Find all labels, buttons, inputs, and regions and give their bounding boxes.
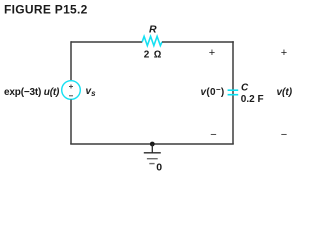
svg-text:C: C — [241, 83, 249, 94]
wire bottom segment — [70, 143, 234, 145]
wire top-left segment — [71, 41, 142, 43]
resistor R — [142, 36, 162, 45]
wire right upper segment — [232, 41, 234, 92]
ground — [144, 144, 161, 164]
junction dot node 0 — [150, 142, 155, 147]
plus terminal mark — [69, 85, 73, 89]
svg-text:FIGURE P15.2: FIGURE P15.2 — [4, 3, 88, 17]
svg-text:R: R — [149, 24, 157, 36]
svg-text:v(t): v(t) — [277, 87, 293, 98]
svg-text:0.2 F: 0.2 F — [241, 94, 264, 105]
svg-text:−: − — [281, 129, 287, 141]
capacitor C — [228, 90, 239, 95]
voltage source Vs — [62, 81, 81, 100]
svg-text:0: 0 — [156, 162, 162, 174]
svg-text:+: + — [209, 47, 215, 59]
svg-text:+: + — [281, 47, 287, 59]
wire left upper segment — [70, 41, 72, 80]
wire right lower segment — [232, 93, 234, 145]
minus terminal mark — [69, 95, 73, 97]
svg-text:exp(−3t) u(t): exp(−3t) u(t) — [4, 87, 60, 98]
wire left lower segment — [70, 100, 72, 145]
svg-text:v(0−): v(0−) — [201, 85, 225, 98]
svg-text:2 Ω: 2 Ω — [144, 50, 162, 61]
svg-text:−: − — [210, 129, 216, 141]
wire top-right segment — [162, 41, 234, 43]
